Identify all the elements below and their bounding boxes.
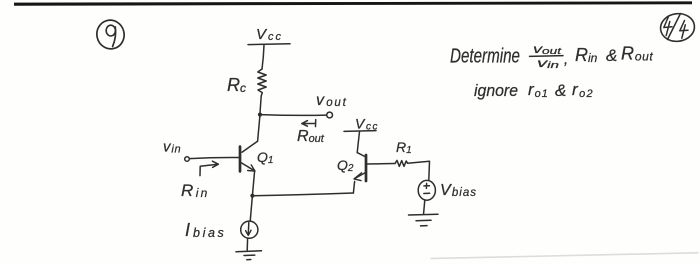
Rin measurement arrow [200, 161, 218, 175]
wire Vcc to Rc [262, 45, 264, 69]
svg-text:vout: vout [533, 42, 562, 56]
svg-text:R1: R1 [396, 139, 412, 156]
svg-text:Rc: Rc [227, 75, 246, 95]
wire up to Q2 emitter [353, 181, 354, 193]
svg-text:Q2: Q2 [337, 157, 354, 174]
circled page count 4/4 [659, 12, 696, 44]
svg-text:Vcc: Vcc [256, 26, 283, 43]
top border bar [14, 1, 692, 5]
svg-text:&: & [555, 81, 566, 100]
wire Q1 emitter down [252, 171, 254, 196]
wire emitter node to Ibias [250, 196, 252, 222]
svg-text:Ibias: Ibias [185, 220, 226, 240]
wire collector node to vout terminal [260, 114, 326, 117]
resistor R1 [395, 160, 408, 166]
ground (Ibias) [236, 251, 262, 260]
svg-text:Rin: Rin [575, 45, 598, 65]
svg-text:&: & [606, 46, 617, 65]
wire R1 to Vbios [408, 161, 430, 180]
handwritten text line 2: ignore ro1 & ro2 [474, 80, 594, 100]
transistor Q1 [240, 115, 260, 172]
fraction bar vout/vin [530, 55, 564, 58]
transistor Q2 [354, 153, 366, 181]
handwritten text line 1: Determine vout/vin, Rin & Rout [450, 42, 653, 70]
svg-text:Rout: Rout [621, 44, 653, 64]
Vcc supply bar (left) [248, 43, 290, 46]
svg-text:ignore: ignore [474, 81, 518, 100]
node emitter junction dot [250, 194, 254, 198]
wire Rc to collector node [260, 96, 261, 114]
svg-text:Rout: Rout [297, 128, 325, 145]
paper edge scan artifact [431, 253, 698, 259]
node vout open terminal [327, 112, 333, 118]
voltage source Vbios [418, 180, 435, 200]
svg-text:vin: vin [163, 139, 181, 156]
svg-text:Rin: Rin [181, 181, 210, 200]
circled page number 9 [94, 17, 127, 52]
resistor Rc [258, 69, 266, 96]
svg-text:ro2: ro2 [572, 80, 594, 100]
svg-text:ro1: ro1 [528, 80, 549, 100]
current source Ibias [241, 221, 258, 238]
node vin open terminal [185, 157, 190, 162]
wire vin to Q1 base [190, 157, 240, 158]
svg-text:vin: vin [537, 56, 559, 70]
Rout measurement arrow [302, 120, 316, 127]
svg-text:Vbias: Vbias [440, 182, 477, 199]
wire Ibias to ground [246, 238, 248, 250]
Vcc supply bar (right) [344, 130, 376, 133]
node collector junction dot [258, 113, 262, 117]
wire Vbios to ground [424, 200, 425, 213]
svg-text:,: , [564, 51, 568, 68]
wire Q2 base to R1 [367, 163, 396, 166]
wire Vcc to Q2 collector [357, 132, 359, 153]
svg-text:Determine: Determine [450, 46, 520, 68]
wire emitter node to Q2 emitter [252, 193, 353, 196]
svg-text:Q1: Q1 [257, 149, 273, 166]
svg-text:vout: vout [316, 92, 348, 109]
ground (Vbios) [409, 214, 439, 226]
